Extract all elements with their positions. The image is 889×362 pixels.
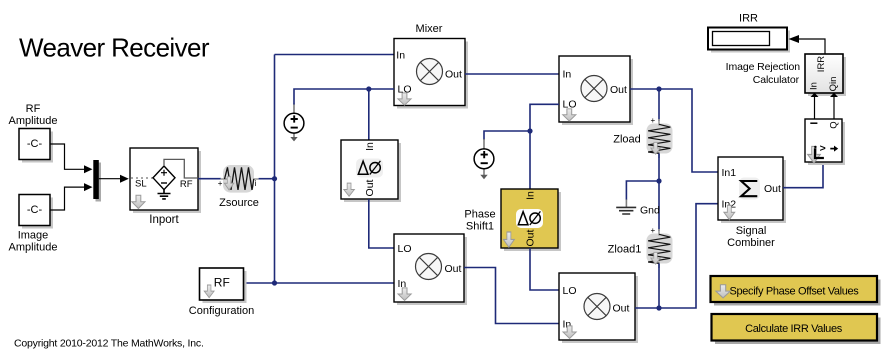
svg-text:Out: Out bbox=[613, 303, 630, 315]
svg-text:Image Rejection: Image Rejection bbox=[726, 61, 801, 73]
wire configuration bus to mixer3 In bbox=[246, 282, 395, 284]
svg-text:Q: Q bbox=[829, 121, 840, 128]
svg-text:Mixer: Mixer bbox=[416, 23, 443, 35]
svg-text:Combiner: Combiner bbox=[727, 237, 775, 249]
svg-text:Zload1: Zload1 bbox=[608, 243, 642, 255]
svg-text:Phase: Phase bbox=[464, 209, 495, 221]
internal wire diamond top to RF bbox=[164, 159, 197, 178]
label Phase Shift1 bbox=[464, 209, 495, 233]
svg-text:LO: LO bbox=[398, 243, 412, 255]
wire Zload to gnd node bbox=[658, 153, 660, 231]
dotted SL line bbox=[131, 177, 153, 179]
svg-text:Signal: Signal bbox=[736, 225, 767, 237]
node junction LO1 bbox=[366, 86, 371, 91]
voltage source V2 bbox=[474, 139, 494, 179]
svg-text:Configuration: Configuration bbox=[189, 305, 254, 317]
configuration block bbox=[200, 268, 247, 303]
svg-text:-C-: -C- bbox=[27, 138, 43, 150]
svg-text:RF: RF bbox=[214, 276, 230, 290]
svg-text:Shift1: Shift1 bbox=[466, 221, 494, 233]
svg-text:>: > bbox=[820, 142, 826, 154]
wire mux to Inport bbox=[99, 175, 129, 183]
wire Inport to Zsource bbox=[198, 178, 221, 180]
image rejection calculator block bbox=[805, 54, 846, 96]
svg-text:Zsource: Zsource bbox=[219, 197, 259, 209]
svg-text:Weaver Receiver: Weaver Receiver bbox=[19, 33, 210, 63]
display IRR bbox=[708, 28, 790, 53]
badge arrow bbox=[132, 195, 145, 208]
svg-text:Out: Out bbox=[525, 229, 537, 246]
wire IQ block I to calculator bbox=[811, 93, 819, 119]
node junction mixer4 out bbox=[656, 305, 661, 310]
impedance Zload1 bbox=[647, 226, 673, 268]
wire signal combiner out to IQ block bbox=[783, 164, 823, 188]
mixer U1 bbox=[394, 39, 468, 109]
svg-text:Inport: Inport bbox=[149, 214, 179, 226]
mux bbox=[93, 160, 101, 202]
button Calculate IRR Values bbox=[712, 314, 881, 344]
svg-text:In: In bbox=[525, 191, 537, 200]
svg-text:In: In bbox=[364, 142, 376, 151]
svg-text:i: i bbox=[255, 179, 257, 188]
wire constant2 to mux bbox=[50, 183, 92, 210]
controlled source diamond bbox=[153, 166, 175, 190]
voltage source V1 bbox=[284, 104, 304, 142]
wire V1 to Mixer LO bbox=[294, 89, 394, 105]
wire junction to Zload bbox=[658, 89, 660, 121]
phase shift1 block (highlighted) bbox=[501, 189, 561, 251]
svg-text:In: In bbox=[396, 50, 405, 62]
label Image Amplitude bbox=[9, 230, 58, 254]
wire calculator IRR to display bbox=[789, 35, 826, 54]
svg-text:Specify Phase Offset Values: Specify Phase Offset Values bbox=[730, 286, 860, 298]
wire LO1 down to phase shift bbox=[368, 89, 370, 140]
svg-text:LO: LO bbox=[563, 285, 577, 297]
node junction Zload top bbox=[656, 86, 661, 91]
svg-text:IRR: IRR bbox=[816, 56, 827, 73]
button Specify Phase Offset Values bbox=[711, 276, 881, 306]
svg-text:Calculator: Calculator bbox=[753, 74, 800, 86]
constant block Image Amplitude bbox=[19, 195, 53, 229]
mixer U4 bbox=[559, 273, 638, 343]
phase shift block bbox=[341, 140, 401, 202]
wire to Mixer In bbox=[275, 54, 395, 56]
wire Mixer out to mixer2 In bbox=[465, 73, 559, 75]
svg-text:RF: RF bbox=[180, 179, 193, 190]
svg-text:Out: Out bbox=[610, 84, 627, 96]
svg-text:Image: Image bbox=[18, 230, 49, 242]
svg-text:-C-: -C- bbox=[27, 204, 43, 216]
svg-text:Out: Out bbox=[445, 263, 462, 275]
signal combiner bbox=[718, 157, 786, 223]
ground under diamond bbox=[158, 190, 171, 199]
label RF Amplitude bbox=[9, 103, 58, 127]
svg-text:Out: Out bbox=[764, 183, 781, 195]
subsystem Inport bbox=[130, 148, 201, 213]
impedance Zsource bbox=[218, 165, 259, 193]
svg-text:In: In bbox=[563, 69, 572, 81]
wire RF vertical bus bbox=[274, 55, 276, 284]
svg-text:Calculate IRR Values: Calculate IRR Values bbox=[745, 323, 843, 335]
svg-text:Gnd: Gnd bbox=[640, 205, 660, 217]
svg-text:In1: In1 bbox=[722, 167, 737, 179]
svg-text:Out: Out bbox=[445, 69, 462, 81]
wire LO2 down to phase shift1 bbox=[529, 131, 531, 189]
wire mixer2 LO from V2 bbox=[484, 104, 559, 140]
svg-text:+: + bbox=[651, 226, 656, 235]
wire phase shift1 out to mixer4 LO bbox=[530, 248, 559, 290]
label Image Rejection Calculator bbox=[726, 61, 801, 86]
svg-text:RF: RF bbox=[26, 103, 41, 115]
svg-text:Zload: Zload bbox=[613, 133, 641, 145]
node junction gnd bbox=[656, 178, 661, 183]
constant block RF Amplitude bbox=[19, 129, 53, 163]
node junction at configuration wire bbox=[272, 280, 277, 285]
wire Zload1 to mixer4 out node bbox=[658, 263, 660, 308]
svg-text:Out: Out bbox=[364, 179, 376, 196]
label Signal Combiner bbox=[727, 225, 775, 249]
node junction RF bbox=[272, 176, 277, 181]
mixer U2 bbox=[559, 56, 633, 125]
svg-text:Amplitude: Amplitude bbox=[9, 242, 58, 254]
node junction LO2 bbox=[527, 128, 532, 133]
svg-text:+: + bbox=[651, 116, 656, 125]
wire to ground bbox=[626, 181, 659, 200]
impedance Zload bbox=[647, 116, 673, 158]
svg-text:Copyright 2010-2012 The MathWo: Copyright 2010-2012 The MathWorks, Inc. bbox=[14, 338, 204, 350]
svg-text:Qin: Qin bbox=[828, 77, 839, 92]
wire Zsource to node bbox=[259, 178, 275, 180]
wire mixer4 out bbox=[635, 204, 718, 308]
svg-text:In: In bbox=[809, 82, 820, 90]
svg-text:Amplitude: Amplitude bbox=[9, 115, 58, 127]
wire mixer2 out bbox=[630, 89, 718, 172]
svg-text:SL: SL bbox=[135, 179, 147, 190]
svg-text:+: + bbox=[218, 179, 223, 188]
mixer U3 bbox=[394, 234, 467, 305]
wire constant1 to mux bbox=[50, 144, 92, 173]
wire IQ block Q to calculator bbox=[830, 93, 838, 119]
wire mixer3 out to mixer4 In bbox=[464, 268, 559, 324]
IQ demod block bbox=[805, 119, 845, 165]
ground Gnd bbox=[616, 200, 660, 217]
svg-text:IRR: IRR bbox=[739, 13, 758, 25]
wire phase shift out down to mixer3 LO bbox=[369, 199, 394, 248]
